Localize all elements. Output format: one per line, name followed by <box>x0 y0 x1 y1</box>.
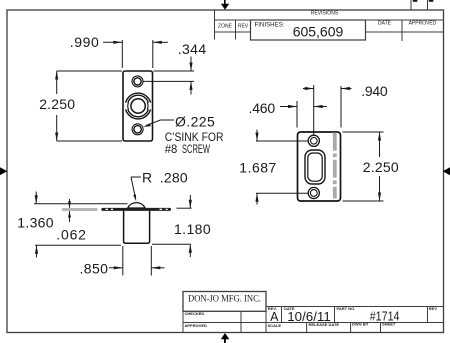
svg-text:1.360: 1.360 <box>17 215 54 231</box>
dimension .990 <box>103 40 168 68</box>
svg-text:SCREW: SCREW <box>182 144 210 156</box>
cylinder body <box>124 210 150 243</box>
center mark bottom <box>221 333 230 343</box>
dimension 1.360 <box>34 192 128 258</box>
svg-text:Ø.225: Ø.225 <box>175 113 215 129</box>
center mark right <box>443 167 450 175</box>
svg-text:APPROVED: APPROVED <box>185 323 208 328</box>
centerline top hole <box>313 85 315 135</box>
svg-text:10/6/11: 10/6/11 <box>287 309 331 324</box>
svg-text:CHECKED: CHECKED <box>185 311 205 316</box>
svg-text:1.687: 1.687 <box>239 159 277 175</box>
leader R .280 <box>131 177 141 196</box>
svg-text:1.180: 1.180 <box>174 221 211 237</box>
detent notches middle hole <box>124 103 128 110</box>
svg-text:A: A <box>270 310 279 324</box>
plate outline view1 <box>123 71 153 141</box>
svg-text:.850: .850 <box>80 261 109 277</box>
latch slot <box>305 150 325 184</box>
dimension .344 <box>144 57 195 95</box>
dimension 2.250 view1 <box>57 71 122 141</box>
middle hole rings <box>125 93 151 119</box>
svg-text:.344: .344 <box>178 41 207 57</box>
grey reference line <box>62 208 98 211</box>
svg-text:2.250: 2.250 <box>39 96 75 112</box>
svg-text:REV: REV <box>429 306 438 311</box>
svg-text:ZONE: ZONE <box>218 24 233 30</box>
svg-text:DATE: DATE <box>378 20 392 26</box>
top screw hole view3 <box>308 135 319 146</box>
svg-text:.940: .940 <box>361 83 388 99</box>
leader and note Ø.225 <box>146 120 174 126</box>
dimension .850 <box>109 246 165 276</box>
dimension .460 <box>280 101 327 128</box>
flange bar <box>101 208 171 211</box>
svg-text:2.250: 2.250 <box>363 159 399 175</box>
dimension 1.180 <box>152 195 192 257</box>
bottom screw hole view3 <box>308 187 319 198</box>
title block <box>183 292 444 333</box>
svg-text:PART NO.: PART NO. <box>337 306 356 311</box>
svg-text:REV: REV <box>238 24 249 30</box>
svg-text:#1714: #1714 <box>370 310 400 324</box>
bend centerline grey dashed <box>333 133 337 199</box>
dimension .062 <box>69 199 71 222</box>
svg-text:605,609: 605,609 <box>293 24 344 40</box>
svg-text:DWG BY: DWG BY <box>352 322 369 327</box>
center mark left <box>0 167 7 175</box>
dimension 2.250 view3 <box>343 132 384 201</box>
center mark top <box>221 0 229 10</box>
svg-text:#8: #8 <box>165 144 178 156</box>
svg-text:C’SINK FOR: C’SINK FOR <box>165 132 224 144</box>
dimension 1.687 <box>256 130 309 205</box>
svg-text:FINISHES:: FINISHES: <box>255 23 285 29</box>
top screw hole <box>132 76 143 87</box>
svg-text:.280: .280 <box>160 170 188 186</box>
ball dome <box>128 203 145 208</box>
svg-text:.460: .460 <box>249 100 276 116</box>
svg-text:APPROVED: APPROVED <box>409 20 437 26</box>
svg-text:R: R <box>142 170 153 186</box>
svg-text:.062: .062 <box>56 226 86 242</box>
bottom screw hole <box>132 124 143 135</box>
top-right fragment cells <box>411 0 428 10</box>
svg-text:DON-JO MFG. INC.: DON-JO MFG. INC. <box>188 295 261 305</box>
dimension .940 <box>303 86 352 128</box>
plate outline view3 <box>298 132 341 201</box>
revisions table <box>215 10 444 41</box>
svg-text:REVISIONS: REVISIONS <box>311 11 339 17</box>
svg-text:.990: .990 <box>70 34 100 50</box>
